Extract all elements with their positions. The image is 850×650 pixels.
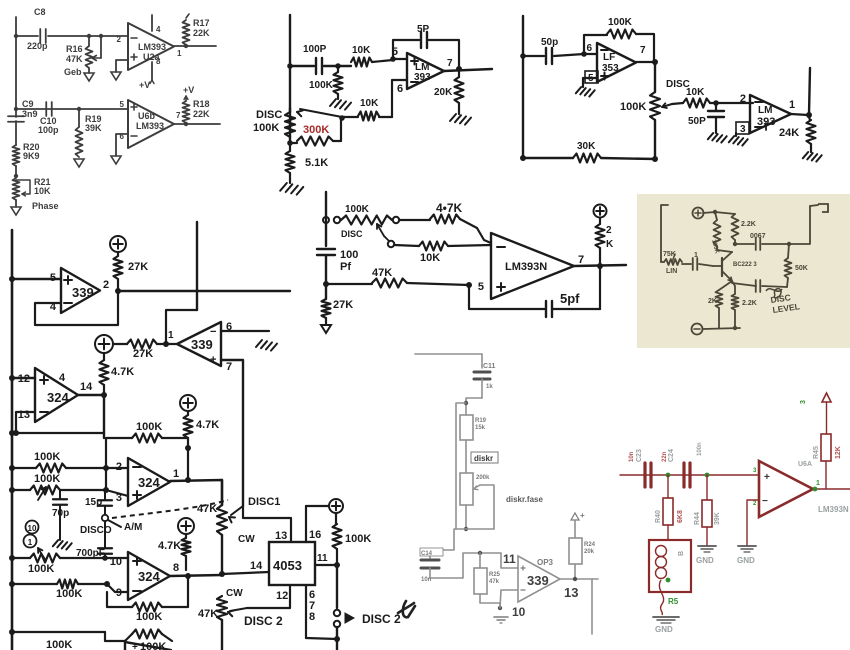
svg-text:R17: R17 — [193, 18, 210, 28]
ground GND below minus input — [738, 545, 756, 547]
capacitor 50P to ground — [715, 103, 717, 110]
svg-text:14: 14 — [80, 381, 93, 393]
pin 3 ground of U2a — [116, 60, 128, 72]
svg-text:220p: 220p — [27, 41, 48, 51]
svg-text:339: 339 — [527, 573, 549, 588]
wire pot wiper to circle node — [384, 236, 389, 241]
svg-text:324: 324 — [47, 390, 69, 405]
resistor 30K — [573, 154, 601, 163]
svg-text:DISCO: DISCO — [80, 525, 112, 536]
svg-text:−: − — [762, 496, 768, 507]
svg-text:10K: 10K — [352, 45, 371, 56]
potentiometer 75K LIN (fragment F) — [661, 261, 664, 263]
scribble mark bottom — [398, 601, 415, 617]
svg-text:LIN: LIN — [666, 268, 677, 275]
resistor 47K (fragment E) — [326, 283, 372, 285]
capacitor 5pf feedback — [469, 285, 545, 309]
resistor 10K lower — [379, 116, 392, 118]
op-amp 324 second — [128, 458, 170, 506]
wire connector to bottom — [336, 627, 338, 650]
svg-text:DISC: DISC — [341, 229, 363, 239]
resistor R45 12K box — [821, 434, 831, 461]
svg-text:2.2K: 2.2K — [741, 221, 756, 228]
svg-text:4.7K: 4.7K — [158, 540, 181, 552]
svg-text:0067: 0067 — [750, 233, 766, 240]
resistor 24K — [808, 114, 810, 120]
svg-text:339: 339 — [72, 285, 94, 300]
svg-text:100K: 100K — [46, 639, 72, 650]
svg-text:LM393N: LM393N — [505, 261, 547, 273]
svg-text:50K: 50K — [795, 265, 808, 272]
connector circles DISC 2 — [334, 610, 340, 616]
potentiometer 50K DISC LEVEL (fragment F) — [788, 244, 789, 258]
wire left rail (fragment D) — [11, 230, 14, 650]
wire pin 6 to ground (339 second) — [221, 330, 269, 332]
IC 4053 — [269, 542, 315, 585]
svg-text:DISC 2: DISC 2 — [362, 612, 401, 626]
svg-text:100K: 100K — [28, 563, 54, 575]
capacitor C24 — [682, 463, 685, 487]
circled pin 9 — [24, 535, 37, 548]
resistor R40 6K8 box — [667, 475, 669, 498]
wire coil to ground (fragment H) — [659, 580, 663, 615]
resistor 100K feedback 324 second — [106, 438, 132, 468]
wire pin 14 of 4053 — [222, 572, 269, 574]
power arrow 3 (fragment H) — [822, 393, 831, 402]
svg-text:5.1K: 5.1K — [305, 157, 328, 169]
op-amp 339 first — [61, 268, 100, 313]
potentiometer 47K DISC2 — [217, 596, 227, 620]
svg-text:R18: R18 — [193, 99, 210, 109]
svg-text:+V: +V — [183, 85, 194, 95]
power node circle-plus (4053 area) — [329, 499, 343, 513]
wire U6b output — [174, 123, 220, 125]
svg-text:13: 13 — [275, 530, 287, 542]
potentiometer 100K row y490 — [12, 489, 30, 491]
svg-text:CW: CW — [226, 588, 243, 599]
svg-text:50P: 50P — [688, 116, 706, 127]
svg-text:20k: 20k — [584, 549, 595, 555]
ground below R16 — [84, 73, 94, 81]
resistor 2K emitter (fragment F) — [719, 281, 732, 290]
wire pin 6 input — [392, 80, 407, 117]
svg-text:4: 4 — [156, 25, 161, 34]
svg-text:R5: R5 — [668, 597, 679, 606]
wire pin 7 down (339 second) — [221, 360, 243, 506]
svg-text:200k: 200k — [476, 475, 490, 481]
resistor R17 22K — [186, 14, 189, 18]
wire to top-right terminal (fragment F) — [789, 206, 810, 244]
svg-text:GND: GND — [655, 625, 673, 634]
svg-text:2: 2 — [117, 35, 122, 44]
potentiometer 47K DISC1 — [221, 480, 223, 505]
svg-text:50p: 50p — [541, 37, 558, 48]
wire bottom rail (fragment C) — [523, 157, 573, 159]
wire output node — [444, 69, 492, 71]
op-amp LF353 — [597, 43, 636, 82]
svg-text:LM: LM — [758, 105, 772, 116]
potentiometer DISC 100K — [289, 108, 291, 143]
resistor R19 15k box — [460, 415, 473, 440]
wire pot to 10K — [672, 103, 683, 104]
svg-text:100K: 100K — [345, 533, 371, 545]
svg-text:3n9: 3n9 — [22, 109, 38, 119]
svg-text:1: 1 — [789, 99, 795, 111]
ground below pin 10 (fragment G) — [494, 616, 508, 618]
svg-text:100P: 100P — [303, 44, 327, 55]
capacitor 100P — [290, 65, 314, 67]
svg-text:DISC 2: DISC 2 — [244, 614, 283, 628]
wire +V rail (fragment C) — [809, 68, 810, 114]
svg-text:100K: 100K — [136, 421, 162, 433]
resistor R44 39K box — [706, 475, 708, 500]
svg-text:+: + — [764, 472, 770, 483]
resistor 100K bottom feedback — [105, 632, 125, 641]
svg-text:22K: 22K — [193, 109, 210, 119]
svg-text:R24: R24 — [584, 542, 596, 548]
svg-text:39K: 39K — [714, 512, 721, 525]
svg-text:GND: GND — [737, 556, 755, 565]
svg-text:10: 10 — [512, 605, 526, 619]
svg-text:1: 1 — [694, 252, 698, 259]
op-amp LM393N (fragment E) — [491, 233, 574, 299]
svg-text:DISC: DISC — [256, 109, 282, 121]
svg-text:100K: 100K — [608, 17, 633, 28]
resistor 100K to ground — [337, 66, 339, 72]
pin 6 ground of U6b — [116, 134, 128, 156]
svg-text:+: + — [210, 354, 216, 366]
capacitor 0067 (fragment F) — [735, 243, 754, 245]
resistor 2.2K lower (fragment F) — [732, 281, 735, 294]
ground below 100K — [330, 99, 336, 106]
svg-text:R25: R25 — [489, 572, 501, 578]
ground below 24K — [803, 152, 808, 158]
capacitor 700pF — [104, 521, 106, 548]
svg-text:30K: 30K — [577, 141, 596, 152]
svg-text:LM393: LM393 — [138, 42, 166, 52]
svg-text:1: 1 — [177, 49, 182, 58]
wire DISC1 arrow — [231, 506, 243, 515]
svg-text:324: 324 — [138, 569, 160, 584]
svg-text:C24: C24 — [668, 449, 675, 462]
resistor 4.7K below circle-plus — [103, 353, 105, 360]
svg-text:6: 6 — [586, 43, 592, 54]
wire lower input row — [16, 108, 128, 110]
svg-text:100p: 100p — [38, 125, 59, 135]
wire main input (fragment H) — [620, 474, 759, 476]
svg-text:2K: 2K — [708, 298, 717, 305]
ground pin 5 LF353 — [583, 78, 597, 87]
svg-text:47K: 47K — [198, 608, 218, 620]
svg-text:14: 14 — [250, 560, 263, 572]
potentiometer 100K row y558 — [12, 557, 30, 559]
wire left rail (fragment B) — [289, 15, 291, 112]
wire output 13 (fragment G) — [560, 578, 598, 580]
wire vertical left of 4053 — [305, 506, 307, 542]
potentiometer R21 10K Phase — [13, 178, 20, 200]
svg-text:R19: R19 — [475, 418, 487, 424]
wire feedback 339 first — [35, 291, 118, 325]
wire bottom left rail node — [12, 631, 105, 633]
svg-text:7: 7 — [578, 254, 584, 266]
svg-text:3: 3 — [800, 400, 807, 404]
svg-text:C11: C11 — [483, 363, 496, 370]
svg-text:1: 1 — [168, 330, 174, 341]
resistor 2.2K right branch (fragment F) — [715, 212, 735, 214]
op-amp 339 second (left-pointing) — [177, 322, 221, 366]
wire minus input to ground (fragment H) — [747, 500, 759, 546]
resistor 100K left branch (fragment F) — [715, 212, 717, 220]
svg-text:22n: 22n — [662, 451, 668, 462]
power node and resistor 4.7K (324 second) — [180, 395, 196, 411]
wire pin 12 input 324 first — [12, 377, 35, 379]
svg-text:15k: 15k — [475, 425, 486, 431]
svg-text:8: 8 — [309, 611, 315, 623]
svg-text:4.7K: 4.7K — [111, 366, 134, 378]
ground pin 3 LM393 (fragment C) — [735, 133, 737, 136]
label diskr boxed — [471, 452, 498, 463]
wire node to C14 (fragment G) — [436, 529, 466, 550]
svg-text:5: 5 — [120, 100, 125, 109]
node and resistor 27K (339 second) — [163, 341, 169, 347]
capacitor 5P feedback — [393, 40, 419, 59]
svg-text:47k: 47k — [489, 579, 500, 585]
wire emitter to cap row (fragment F) — [732, 283, 756, 286]
wire dashed to DISC1 pot — [112, 500, 228, 518]
ground below 5.1K (fragment B) — [280, 183, 287, 191]
svg-text:12K: 12K — [835, 446, 842, 459]
pin 4 of U2a — [151, 15, 153, 31]
svg-text:1: 1 — [28, 538, 33, 547]
svg-text:LM393: LM393 — [136, 121, 164, 131]
op-amp U6A LM393N (fragment H) — [759, 461, 813, 517]
switch A/M DISCO — [102, 515, 108, 521]
svg-text:27K: 27K — [133, 348, 153, 360]
svg-text:10K: 10K — [420, 252, 440, 264]
svg-text:70p: 70p — [52, 508, 69, 519]
svg-text:2.2K: 2.2K — [742, 300, 757, 307]
ground below 27K (fragment E) — [321, 325, 331, 333]
resistor 10K (fragment C) — [683, 99, 710, 108]
wire pin 10 input — [500, 590, 518, 608]
wire vertical branch x197 — [196, 222, 198, 310]
svg-text:diskr: diskr — [474, 454, 493, 463]
svg-text:10n: 10n — [629, 451, 635, 462]
resistor 4.7K (fragment E) — [399, 219, 430, 221]
resistor 5.1K — [289, 143, 291, 151]
op-amp U2a LM393 — [128, 23, 174, 70]
ground GND below R44 — [698, 545, 716, 547]
wire pin 13 loop 324 first — [16, 412, 35, 433]
svg-text:100K: 100K — [136, 611, 162, 623]
capacitor 1 (fragment F) — [682, 263, 691, 265]
svg-text:C14: C14 — [421, 551, 433, 557]
wire pin 11 input — [501, 553, 518, 568]
op-amp 324 third — [128, 552, 170, 600]
svg-text:U6b: U6b — [138, 111, 156, 121]
power node and resistor 4.7K (324 third) — [178, 518, 194, 534]
svg-text:R16: R16 — [66, 44, 83, 54]
wire top rail (fragment G) — [415, 353, 482, 355]
svg-text:+: + — [580, 511, 585, 520]
svg-text:324: 324 — [138, 475, 160, 490]
svg-text:A/M: A/M — [124, 522, 142, 533]
wire pin 3 row to 324 second — [106, 490, 128, 496]
wire left rail (fragment F) — [661, 205, 668, 262]
svg-text:47K: 47K — [66, 54, 83, 64]
wire pot bottom (fragment C) — [654, 120, 656, 159]
svg-text:OP3: OP3 — [537, 558, 554, 567]
potentiometer 200k box — [460, 473, 473, 505]
svg-text:100K: 100K — [620, 101, 646, 113]
svg-text:6: 6 — [397, 83, 403, 95]
svg-text:K: K — [606, 239, 614, 250]
svg-text:C9: C9 — [22, 99, 34, 109]
svg-text:R40: R40 — [655, 510, 662, 523]
wire bypass vertical (fragment G) — [456, 403, 466, 529]
svg-text:1: 1 — [816, 480, 820, 487]
capacitor C9 3n9 — [8, 115, 24, 117]
resistor R25 47k box — [479, 553, 481, 568]
svg-text:16: 16 — [309, 529, 321, 541]
ground below 50P — [708, 133, 713, 139]
svg-text:9K9: 9K9 — [23, 151, 40, 161]
potentiometer R16 47K Geb — [88, 36, 90, 46]
resistor 100K feedback LF353 — [584, 35, 607, 54]
svg-text:5: 5 — [478, 281, 484, 293]
capacitor C11 1n — [474, 371, 490, 374]
svg-text:5pf: 5pf — [560, 291, 580, 306]
wire output (fragment H) — [813, 488, 850, 490]
ground pin 6 (339 second) — [256, 340, 262, 347]
svg-text:4.7K: 4.7K — [196, 419, 219, 431]
power arrow + and resistor R24 20k — [571, 513, 579, 520]
svg-text:U6A: U6A — [798, 461, 812, 468]
wire pin 6 input LF353 — [584, 53, 597, 55]
resistor 10K (fragment E) — [394, 245, 419, 246]
svg-text:4053: 4053 — [273, 558, 302, 573]
wire LF353 output to pot — [636, 61, 655, 63]
svg-text:GND: GND — [696, 556, 714, 565]
op-amp 324 fourth partial — [124, 641, 126, 650]
svg-text:13: 13 — [564, 585, 578, 600]
yellow scan background — [637, 194, 850, 348]
svg-text:CW: CW — [238, 534, 255, 545]
svg-text:10K: 10K — [360, 98, 379, 109]
svg-text:Geb: Geb — [64, 67, 82, 77]
svg-text:100n: 100n — [697, 442, 703, 456]
op-amp U6b LM393 — [128, 100, 174, 148]
capacitor C10 100p — [45, 102, 47, 116]
power terminal minus (fragment F) — [692, 324, 703, 335]
wire left rail (fragment E) — [325, 192, 327, 246]
svg-text:C8: C8 — [34, 7, 46, 17]
ground GND below coil — [653, 616, 679, 618]
svg-text:20K: 20K — [434, 87, 453, 98]
svg-text:11: 11 — [503, 552, 516, 566]
svg-text:100K: 100K — [56, 588, 82, 600]
op-amp 324 first — [35, 368, 78, 422]
svg-text:339: 339 — [191, 337, 213, 352]
op-amp LM393 (fragment C) — [750, 95, 791, 133]
svg-text:LF: LF — [603, 52, 615, 63]
wire pin 13 of 4053 — [243, 506, 291, 542]
wire pin 5 input — [393, 58, 407, 60]
wire pin 5 input 339 first — [12, 278, 61, 280]
svg-text:4: 4 — [59, 372, 66, 384]
resistor 100K feedback 324 third — [162, 576, 188, 607]
svg-text:1: 1 — [173, 468, 179, 480]
resistor R19 39K — [78, 109, 80, 127]
wire output 324 first — [78, 394, 104, 396]
svg-text:7: 7 — [447, 58, 453, 69]
potentiometer 100K (fragment E) — [334, 217, 340, 223]
capacitor C23 — [643, 463, 646, 487]
wire output 324 second to pot — [170, 480, 222, 505]
wire U2a output node — [174, 45, 216, 47]
svg-text:6K8: 6K8 — [677, 510, 684, 523]
capacitor 0.01u (fragment F) — [755, 280, 757, 292]
circled pin 10 — [26, 521, 39, 534]
power terminal plus (fragment F) — [693, 208, 704, 219]
svg-text:2: 2 — [103, 279, 109, 291]
wire input row y584 with resistor 100K — [12, 583, 57, 585]
svg-text:100K: 100K — [309, 80, 334, 91]
capacitor 70p — [59, 490, 61, 498]
svg-text:100K: 100K — [34, 451, 60, 463]
svg-text:10n: 10n — [421, 577, 432, 583]
svg-text:R45: R45 — [813, 446, 820, 459]
pin 8 of U2a to +V — [151, 62, 153, 80]
ground below 20K — [450, 114, 456, 121]
svg-text:DISC1: DISC1 — [248, 496, 280, 508]
wire left rail (fragment C) — [522, 16, 524, 158]
svg-text:3: 3 — [740, 124, 746, 135]
svg-text:LM393N: LM393N — [818, 505, 849, 514]
resistor 20K — [458, 69, 460, 77]
wire input row y468 with resistor 100K — [12, 467, 36, 469]
svg-text:8: 8 — [173, 562, 179, 574]
resistor 10K upper — [351, 58, 372, 67]
svg-text:10K: 10K — [34, 186, 51, 196]
svg-text:+: + — [132, 642, 138, 650]
svg-text:7: 7 — [176, 111, 181, 120]
svg-text:Phase: Phase — [32, 201, 59, 211]
svg-text:13: 13 — [18, 409, 30, 421]
svg-text:27K: 27K — [333, 299, 353, 311]
svg-text:47K: 47K — [372, 267, 392, 279]
svg-text:100K: 100K — [253, 122, 279, 134]
svg-text:Pf: Pf — [340, 261, 351, 273]
svg-text:R44: R44 — [694, 512, 701, 525]
resistor 27K (fragment E) — [322, 299, 331, 318]
wire pin 12 of 4053 to DISC2 arrow — [247, 585, 290, 608]
wire circle-plus to pin 16 — [306, 505, 329, 507]
svg-text:100K: 100K — [34, 473, 60, 485]
node dots (fragment H) — [666, 473, 671, 478]
svg-text:22K: 22K — [193, 28, 210, 38]
ground below R19 — [74, 159, 84, 167]
svg-text:24K: 24K — [779, 127, 799, 139]
svg-text:27K: 27K — [128, 261, 148, 273]
capacitor 50p — [523, 55, 544, 57]
relay coil R5 box — [649, 540, 691, 592]
capacitor C8 — [16, 35, 38, 37]
capacitor 100Pf — [317, 248, 335, 250]
svg-text:diskr.fase: diskr.fase — [506, 495, 543, 504]
wire long output bus (339 first) — [118, 290, 290, 292]
svg-text:10K: 10K — [686, 87, 705, 98]
